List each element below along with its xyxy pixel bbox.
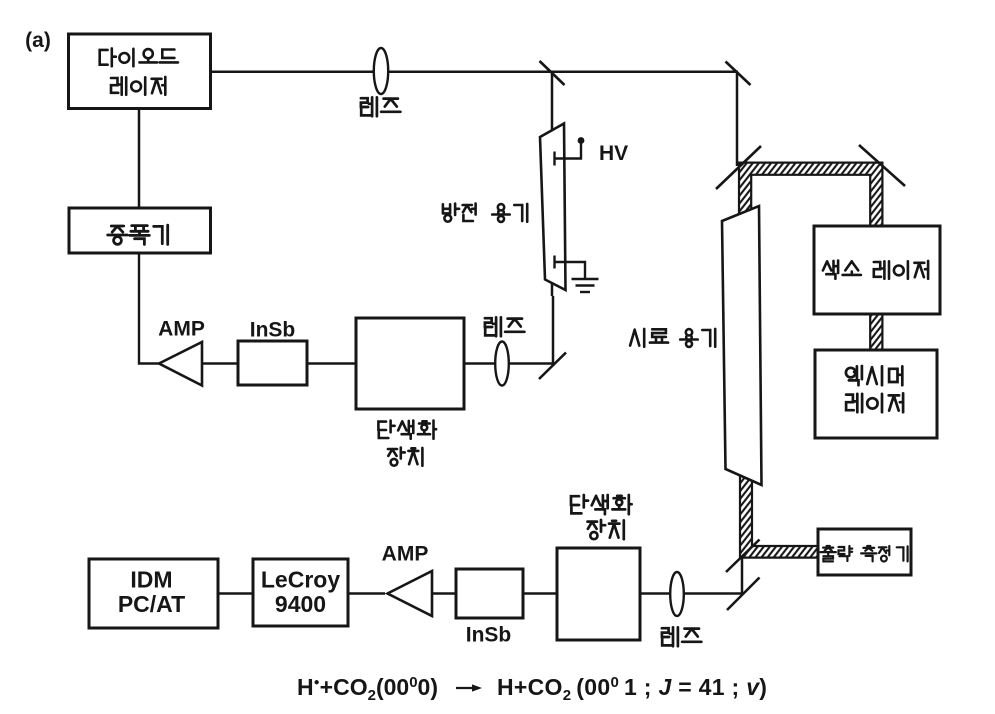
svg-text:PC/AT: PC/AT	[118, 591, 185, 617]
discharge cell (방전 용기): slanted vessel	[540, 124, 566, 291]
label: 렌즈 (lens L2)	[485, 317, 525, 336]
svg-text:AMP: AMP	[382, 543, 429, 566]
box: monochromator (middle)	[356, 318, 464, 409]
label: 시료 용기	[630, 329, 715, 347]
wire: mirror M5 left to monochromator (middle beam)	[464, 362, 553, 365]
mirror M5 (IR pickoff below discharge cell)	[539, 353, 566, 380]
wire: LeCroy 9400 to IDM PC/AT	[218, 592, 253, 595]
svg-text:InSb: InSb	[250, 319, 296, 342]
lens L2 (렌즈, middle beam)	[495, 342, 509, 386]
wire: mirror M7 left to lens L3 and monochromator (bottom beam)	[640, 592, 742, 595]
box: power meter (출력 측정기)	[818, 529, 911, 575]
label: 단색화 장치 (middle monochromator)	[378, 421, 436, 439]
mirror M4 (hatched path, upper-right corner)	[859, 145, 905, 186]
label: 렌즈 (lens L1)	[361, 97, 401, 116]
mirror M1	[540, 61, 565, 85]
wire: diode laser down to amplifier box	[138, 108, 141, 210]
svg-text:LeCroy: LeCroy	[261, 567, 340, 593]
ground electrode inside discharge cell	[553, 256, 555, 269]
wire: InSb to AMP triangle (bottom)	[432, 592, 456, 595]
box: amplifier (증폭기)	[69, 208, 211, 253]
HV terminal dot	[578, 137, 585, 144]
label: 방전 용기	[443, 204, 527, 222]
wire: InSb to AMP triangle (middle)	[202, 362, 238, 365]
AMP triangle amplifier (bottom)	[388, 571, 433, 616]
box: IDM PC/AT computer	[89, 559, 218, 628]
box: dye laser (색소 레이저)	[814, 226, 940, 314]
wire: amplifier box down and right to AMP triangle tip	[139, 252, 159, 364]
svg-text:9400: 9400	[275, 591, 326, 617]
sample cell (시료 용기): slanted vessel	[722, 206, 762, 485]
wire: beam splitter corner down to mirror M7	[741, 556, 744, 594]
hatched pump beam: top L-shaped path from dye laser to sample cell	[739, 163, 882, 227]
mirror M2	[726, 62, 751, 86]
formula arrow	[456, 687, 474, 689]
box: InSb detector (bottom)	[456, 569, 523, 618]
svg-text:AMP: AMP	[158, 318, 205, 341]
AMP triangle amplifier (middle)	[159, 342, 202, 386]
box: diode laser (다이오드 레이저)	[69, 34, 211, 109]
mirror M7 (IR pickoff to bottom monochromator)	[727, 578, 760, 611]
wire: diode laser to turning mirror M2 (top beam)	[210, 71, 738, 74]
svg-text:(a): (a)	[25, 29, 51, 52]
svg-text:HV: HV	[599, 142, 628, 165]
ground symbol	[572, 278, 599, 280]
HV electrode inside discharge cell	[553, 152, 555, 166]
box: excimer laser (엑시머 레이저)	[815, 350, 937, 438]
lens L3 (렌즈, bottom beam)	[670, 572, 684, 616]
wire: mirror M2 down to hatched-beam corner	[736, 72, 739, 166]
wire: mirror M1 down through discharge cell	[551, 72, 554, 296]
mirror M3 (hatched path, upper-left corner)	[716, 146, 761, 189]
wire: bottom monochromator to InSb	[523, 592, 557, 595]
wire: discharge cell down to mirror M5	[552, 296, 555, 365]
hatched pump beam: dye laser to excimer laser link	[870, 310, 882, 352]
label: 렌즈 (lens L3)	[662, 627, 702, 646]
svg-text:H+CO2 (000 1 ; J = 41 ; v): H+CO2 (000 1 ; J = 41 ; v)	[497, 674, 767, 704]
wire: monochromator to InSb (middle)	[307, 362, 356, 365]
mirror M6 (beam splitter at elbow to power meter)	[726, 540, 760, 573]
svg-text:IDM: IDM	[130, 567, 172, 593]
box: InSb detector (middle)	[238, 341, 307, 385]
lens L1 (렌즈)	[374, 48, 388, 94]
box: monochromator (bottom)	[557, 548, 640, 640]
svg-text:InSb: InSb	[466, 624, 512, 647]
hatched pump beam: below sample cell, elbow to power meter	[740, 468, 819, 558]
box: LeCroy 9400 oscilloscope	[253, 559, 348, 626]
wire: AMP triangle to LeCroy 9400	[348, 592, 385, 595]
label: 단색화 장치 (bottom monochromator)	[571, 495, 632, 514]
